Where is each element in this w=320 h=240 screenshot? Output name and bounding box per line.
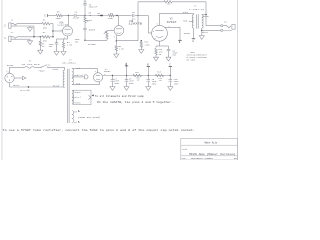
R11 value bbox=[136, 77, 140, 80]
note centertap line3 bbox=[187, 57, 208, 59]
R6 value 1M bbox=[89, 14, 92, 17]
wire R7 to V1B plate bbox=[114, 15, 119, 17]
heater chevron bbox=[89, 95, 91, 99]
wire R1 to grid bus bbox=[50, 23, 53, 25]
resistor R14 divider bbox=[140, 41, 142, 50]
AC neutral wire bbox=[10, 86, 65, 88]
C4 value bbox=[72, 17, 80, 20]
svg-text:4: 4 bbox=[95, 71, 96, 73]
C6 label bbox=[132, 11, 135, 14]
svg-text:To use a 5Y3GT tube rectifier,: To use a 5Y3GT tube rectifier, connect t… bbox=[3, 128, 195, 132]
pin 3 V1A bbox=[64, 37, 65, 39]
resistor R1 bbox=[42, 22, 50, 25]
R7 label bbox=[110, 12, 113, 15]
plug bottom wire bbox=[9, 83, 11, 87]
V1B type 12AX7B bbox=[129, 23, 143, 26]
tone top bar bbox=[84, 0, 87, 2]
V1A label bbox=[59, 21, 64, 24]
C5 label bbox=[89, 3, 92, 6]
R6 label bbox=[89, 12, 92, 15]
R9 value bbox=[119, 48, 125, 51]
svg-text:Volume: Volume bbox=[88, 43, 97, 46]
svg-text:5F2A Amp (Maker Version): 5F2A Amp (Maker Version) bbox=[189, 153, 236, 156]
R4 value bbox=[67, 44, 73, 47]
ground at R3 bbox=[38, 50, 43, 54]
R9 label bbox=[118, 45, 121, 48]
svg-text:8: 8 bbox=[155, 38, 156, 40]
C2 value 25uF bbox=[75, 38, 81, 41]
R8 label bbox=[97, 12, 100, 15]
GrnYel label bbox=[73, 96, 82, 99]
junction C10 node bbox=[170, 75, 171, 76]
C7 value bbox=[114, 80, 120, 83]
svg-text:120K: 120K bbox=[108, 17, 114, 20]
junction grid bus bottom bbox=[52, 36, 53, 37]
svg-text:Size: Size bbox=[182, 158, 186, 160]
Power label bbox=[39, 69, 46, 72]
V3 label bbox=[170, 17, 173, 20]
svg-text:to S2 Blk: to S2 Blk bbox=[20, 90, 30, 92]
J3 tip pad bbox=[221, 25, 223, 27]
svg-text:C: C bbox=[169, 64, 171, 67]
T1 core bbox=[197, 14, 199, 28]
svg-text:Tone: Tone bbox=[87, 19, 93, 22]
volume wiper arrow bbox=[104, 31, 107, 34]
svg-text:.022uF: .022uF bbox=[72, 17, 80, 20]
junction speaker return bbox=[201, 30, 202, 31]
Yel tick bottom bbox=[77, 121, 80, 122]
ground at J2 bbox=[27, 39, 32, 44]
C8 label bbox=[129, 78, 132, 81]
svg-text:3: 3 bbox=[157, 24, 158, 26]
resistor R9 bbox=[115, 41, 117, 54]
rectifier bottom wire bbox=[99, 82, 101, 85]
V1B label bbox=[129, 20, 134, 23]
capacitor C9 filter bbox=[147, 76, 151, 87]
wire riser to V1B grid bbox=[107, 29, 114, 31]
tube V3 6V6 bbox=[152, 25, 168, 41]
svg-text:Red: Red bbox=[183, 20, 187, 23]
junction R14 tap bbox=[141, 40, 142, 41]
ground at C3 bbox=[54, 52, 59, 56]
svg-text:R1: R1 bbox=[43, 18, 46, 21]
rectifier note bbox=[3, 128, 195, 132]
junction volume out bbox=[84, 40, 85, 41]
svg-text:5: 5 bbox=[153, 31, 154, 33]
resistor R7 bbox=[108, 14, 114, 17]
node A riser bbox=[126, 63, 128, 76]
plug P1 label bbox=[6, 71, 9, 74]
R3 label bbox=[42, 43, 45, 46]
junction C9 node bbox=[148, 75, 149, 76]
White wire down bbox=[201, 28, 203, 36]
wire HV bottom bbox=[72, 84, 100, 86]
centertap offpage connector bbox=[85, 75, 89, 79]
capacitor C4 bbox=[75, 14, 76, 17]
ground at J1 bbox=[27, 26, 32, 31]
title Maker Kits bbox=[205, 141, 218, 144]
Brown wire down bbox=[193, 28, 195, 39]
ground at C8 bbox=[124, 87, 129, 91]
note centertap line1 bbox=[190, 52, 195, 54]
svg-text:450V: 450V bbox=[129, 82, 135, 85]
resistor R5 bbox=[56, 14, 63, 17]
pin 8 6V6 bbox=[155, 38, 156, 40]
node C flag at R5 bbox=[44, 14, 47, 17]
pin 8 V1B bbox=[114, 37, 115, 39]
svg-text:12AX7B: 12AX7B bbox=[129, 23, 143, 26]
J3 sleeve link bbox=[223, 29, 232, 31]
svg-text:1: 1 bbox=[65, 24, 66, 26]
R14 label bbox=[145, 41, 149, 44]
svg-text:To all Filaments and Pilot Lam: To all Filaments and Pilot Lamp bbox=[95, 95, 145, 98]
svg-text:Black: Black bbox=[52, 68, 59, 71]
svg-text:C: C bbox=[44, 14, 46, 17]
svg-text:6V6GT: 6V6GT bbox=[167, 21, 178, 24]
fuse F1 bbox=[25, 66, 34, 68]
ground at R9 bbox=[114, 54, 119, 58]
tube V1A bbox=[63, 26, 73, 36]
R11 label bbox=[135, 71, 139, 74]
Brown label bbox=[7, 64, 14, 67]
C2 value 25V bbox=[75, 40, 79, 43]
jack J2 bbox=[9, 36, 30, 42]
wire 6V6 plate to OT bbox=[160, 12, 194, 14]
wire volume to riser bbox=[85, 39, 107, 41]
R7 value 120K bbox=[108, 17, 114, 20]
tone cap top wire bbox=[84, 1, 86, 4]
plug P1 bbox=[5, 73, 14, 82]
rectifier top wire bbox=[97, 69, 99, 73]
svg-text:.005uF: .005uF bbox=[88, 28, 96, 31]
svg-text:R11: R11 bbox=[135, 71, 139, 74]
svg-text:Black: Black bbox=[53, 85, 60, 88]
svg-text:2: 2 bbox=[4, 24, 6, 27]
title text bbox=[189, 153, 236, 156]
Black label top bbox=[52, 68, 59, 71]
Green label bbox=[203, 15, 210, 18]
capacitor C10 filter bbox=[169, 76, 173, 87]
tone wiper arrow bbox=[86, 20, 88, 22]
svg-text:Document Number: Document Number bbox=[191, 158, 214, 160]
svg-text:1.5K: 1.5K bbox=[119, 48, 125, 51]
svg-text:Yel: Yel bbox=[73, 121, 77, 124]
6V6 plate wire bbox=[159, 13, 161, 25]
C10 label bbox=[174, 78, 178, 81]
Red HV top label bbox=[76, 67, 80, 70]
pin 2 V1A bbox=[60, 30, 61, 32]
svg-text:On the 12AX7B, tie pins 4 and: On the 12AX7B, tie pins 4 and 5 together… bbox=[97, 101, 173, 104]
R1 label bbox=[43, 18, 46, 21]
junction grid bus top bbox=[52, 30, 53, 31]
wire C4 to tone node bbox=[76, 15, 85, 17]
svg-text:B: B bbox=[179, 41, 181, 44]
NFB vertical bbox=[137, 2, 139, 41]
V3 type 6V6GT bbox=[167, 21, 178, 24]
White label bbox=[202, 31, 209, 34]
C10 volt bbox=[174, 83, 180, 86]
C3 value 25V bbox=[49, 45, 53, 48]
wire C6 to 6V6 grid bbox=[135, 15, 148, 17]
potentiometer R6 tone bbox=[84, 16, 86, 29]
wire fuse to switch bbox=[34, 66, 41, 68]
ground at C7 bbox=[110, 87, 115, 91]
svg-text:R2: R2 bbox=[43, 31, 46, 34]
svg-text:B: B bbox=[147, 64, 149, 67]
svg-text:450V: 450V bbox=[114, 82, 120, 85]
V2 label bbox=[105, 68, 108, 71]
J3 sleeve pad bbox=[221, 30, 223, 32]
S1 label bbox=[48, 63, 51, 66]
T2 primary coil bbox=[63, 70, 64, 87]
T2 core bbox=[68, 69, 70, 123]
svg-text:WZ68X: WZ68X bbox=[104, 70, 111, 73]
T1 label bbox=[194, 4, 197, 7]
svg-text:2: 2 bbox=[60, 30, 61, 32]
junction C8 node bbox=[126, 75, 127, 76]
V1A plate wire bbox=[67, 16, 69, 27]
svg-text:1A SLO BLO: 1A SLO BLO bbox=[21, 63, 40, 66]
svg-text:7: 7 bbox=[110, 29, 111, 31]
svg-text:12AX7B: 12AX7B bbox=[57, 24, 69, 27]
jack J1 label bbox=[11, 18, 14, 21]
svg-text:450V: 450V bbox=[174, 83, 180, 86]
wire grid to V1A bbox=[53, 30, 63, 32]
wire switch to T2 bbox=[48, 67, 64, 70]
wire HV top to rectifier bbox=[72, 68, 98, 70]
Green label top bbox=[75, 91, 82, 94]
svg-text:68K: 68K bbox=[43, 26, 48, 29]
pin 4 V2 bbox=[95, 71, 96, 73]
junction R3 tap bbox=[40, 36, 41, 37]
svg-text:Brown: Brown bbox=[7, 64, 14, 67]
ground at R4 bbox=[61, 52, 66, 56]
R13 watt bbox=[159, 79, 162, 82]
svg-text:C4: C4 bbox=[75, 11, 78, 14]
svg-text:R13: R13 bbox=[157, 71, 161, 74]
junction J2 tip bbox=[33, 36, 34, 37]
R2 value 68K bbox=[43, 40, 48, 43]
6V6 grid riser bbox=[147, 16, 149, 34]
svg-text:S1: S1 bbox=[48, 63, 51, 66]
svg-text:C6: C6 bbox=[132, 11, 135, 14]
NFB top wire left bbox=[138, 1, 164, 3]
J3 label bbox=[224, 21, 227, 24]
junction V1A plate bbox=[68, 15, 69, 16]
F1 rating bbox=[21, 63, 40, 66]
R12 value 22K bbox=[167, 3, 171, 6]
wire to J3 sleeve bbox=[202, 29, 221, 31]
wire plate node to C6 bbox=[119, 15, 132, 17]
T1 part number bbox=[189, 8, 205, 11]
wire OT secondary top bbox=[202, 14, 206, 16]
svg-text:1M: 1M bbox=[42, 45, 45, 48]
svg-text:220K: 220K bbox=[145, 44, 151, 47]
pin 1 V1A bbox=[65, 24, 66, 26]
pin 4 6V6 bbox=[168, 26, 169, 28]
svg-text:(5VAC Not Used): (5VAC Not Used) bbox=[78, 116, 100, 119]
title block frame bbox=[181, 138, 238, 160]
tube V2 rectifier bbox=[93, 73, 102, 82]
ground at R10 bbox=[153, 57, 158, 61]
tone cap to node wire bbox=[84, 5, 86, 16]
svg-text:White: White bbox=[202, 31, 209, 34]
svg-text:450V: 450V bbox=[152, 83, 158, 86]
node B flag at screen bbox=[178, 40, 181, 44]
svg-text:Power: Power bbox=[39, 69, 46, 72]
pin 8 V2 bbox=[104, 74, 105, 76]
wire to 6V6 grid bbox=[148, 32, 151, 34]
C5 cathode value bbox=[172, 52, 178, 55]
right page border bbox=[237, 0, 239, 160]
wire J2 tip to R2 bbox=[17, 36, 42, 38]
tube V1B bbox=[114, 26, 124, 36]
svg-text:J1: J1 bbox=[11, 18, 14, 21]
potentiometer R8 volume bbox=[106, 30, 108, 40]
plug top wire bbox=[9, 67, 11, 73]
svg-text:8: 8 bbox=[114, 37, 115, 39]
NFB down wire to jack node bbox=[205, 2, 207, 26]
wire C7 to volume bbox=[84, 30, 86, 33]
svg-text:Title: Title bbox=[182, 149, 187, 151]
ground at OT secondary bbox=[199, 36, 204, 40]
B+ rail bbox=[103, 75, 171, 77]
svg-text:REV: REV bbox=[234, 158, 237, 160]
wire J1 tip to R1 bbox=[17, 23, 42, 25]
V1B cathode wire bbox=[115, 35, 117, 41]
svg-text:Blue: Blue bbox=[183, 11, 189, 14]
title label bbox=[182, 149, 187, 151]
svg-text:J2: J2 bbox=[11, 31, 14, 34]
Red centertap label bbox=[183, 20, 187, 23]
note centertap line4 bbox=[187, 59, 196, 61]
C7 value bbox=[88, 28, 96, 31]
svg-text:Yel: Yel bbox=[73, 110, 77, 113]
wire tone node to R7 bbox=[85, 15, 108, 17]
label 2 (input) bbox=[4, 24, 6, 27]
switch S1 bbox=[41, 65, 49, 68]
capacitor C7 filter bbox=[111, 76, 115, 87]
Blue label bbox=[183, 11, 189, 14]
svg-text:2: 2 bbox=[102, 79, 103, 81]
NFB wire cathode to corner bbox=[116, 40, 138, 42]
capacitor C8 filter bbox=[125, 76, 129, 87]
F1 label bbox=[29, 59, 32, 62]
R13 label bbox=[157, 71, 161, 74]
label 1 (input) bbox=[4, 37, 6, 40]
svg-text:P-T291-13: P-T291-13 bbox=[189, 8, 205, 11]
svg-text:V3: V3 bbox=[170, 17, 173, 20]
Yel label bottom bbox=[73, 121, 77, 124]
grid bus vertical bbox=[52, 24, 54, 37]
capacitor C5 cathode bbox=[167, 46, 170, 57]
resistor R2 bbox=[42, 36, 50, 39]
junction V1B plate node bbox=[116, 15, 117, 16]
svg-text:Red: Red bbox=[76, 82, 80, 85]
svg-text:Maker Kits: Maker Kits bbox=[205, 141, 218, 144]
T1 primary coil bbox=[192, 13, 193, 28]
junction V1B cathode bbox=[116, 40, 117, 41]
Tone label bbox=[87, 19, 93, 22]
C3 value 25uF bbox=[49, 43, 55, 46]
Red HV bottom label bbox=[76, 82, 80, 85]
J3 tip spring bbox=[223, 26, 231, 28]
C8 volt bbox=[129, 82, 135, 85]
svg-text:Green: Green bbox=[75, 91, 82, 94]
plug earth wire bbox=[14, 77, 22, 79]
6V6 screen wire bbox=[165, 27, 180, 40]
svg-text:White: White bbox=[13, 84, 20, 87]
NFB crossing blob bbox=[137, 15, 138, 16]
filament note arrowhead bbox=[92, 94, 94, 96]
R14 value 220K bbox=[145, 44, 151, 47]
R8 value 1M bbox=[97, 14, 100, 17]
pin 5 6V6 bbox=[153, 31, 154, 33]
junction speaker node bbox=[205, 14, 206, 15]
heater tie note bbox=[97, 101, 173, 104]
R13 value bbox=[158, 77, 162, 80]
Black label bottom bbox=[53, 85, 60, 88]
junction C7 node bbox=[112, 75, 113, 76]
Green label bottom bbox=[75, 101, 82, 104]
junction neutral bbox=[28, 86, 29, 87]
wire flag to R5 bbox=[48, 15, 56, 17]
V1A cathode wire bbox=[67, 36, 69, 39]
svg-text:R5: R5 bbox=[57, 11, 60, 14]
junction tone node bbox=[84, 15, 85, 16]
neutral tag bbox=[20, 90, 30, 92]
C9 volt bbox=[152, 83, 158, 86]
Red centertap stub bbox=[189, 20, 194, 22]
left page border bbox=[1, 0, 3, 160]
svg-text:1: 1 bbox=[4, 37, 6, 40]
node A flag rail bbox=[125, 63, 128, 66]
V2 type bbox=[104, 70, 111, 73]
T1 secondary coil bbox=[202, 15, 203, 28]
wire J1 shunt down to J2 bbox=[33, 26, 35, 37]
centertap stub bbox=[72, 76, 85, 78]
node B flag rail bbox=[147, 64, 150, 67]
T2 label bbox=[69, 59, 72, 62]
Brown label bbox=[184, 32, 191, 35]
svg-text:40-18022: 40-18022 bbox=[62, 62, 77, 65]
V1A type 12AX7B bbox=[57, 24, 69, 27]
svg-text:A: A bbox=[192, 40, 194, 43]
J3 body bbox=[232, 24, 235, 29]
svg-text:not used.: not used. bbox=[187, 59, 196, 61]
filament note bbox=[95, 95, 145, 98]
V1B plate pin wire bbox=[118, 16, 120, 26]
net tick volume top bbox=[100, 15, 103, 16]
svg-text:J3: J3 bbox=[224, 21, 227, 24]
Yel label top bbox=[73, 110, 77, 113]
resistor R3 grid leak bbox=[39, 37, 41, 50]
node C flag rail bbox=[169, 64, 172, 67]
C4 label bbox=[75, 11, 78, 14]
resistor R10 cathode bbox=[155, 46, 157, 57]
node A flag at OT bbox=[192, 39, 195, 43]
resistor R12 NFB bbox=[164, 1, 172, 3]
size row bbox=[182, 158, 214, 160]
R1 value 68K bbox=[43, 26, 48, 29]
pin 2 V2 bbox=[102, 79, 103, 81]
C10 value bbox=[174, 80, 180, 83]
capacitor C5 tone bbox=[83, 4, 86, 5]
Volume label bbox=[88, 43, 97, 46]
wire C7 tone to volume node bbox=[84, 33, 86, 40]
C5 cathode volt bbox=[172, 54, 176, 57]
C6 value bbox=[131, 17, 137, 20]
